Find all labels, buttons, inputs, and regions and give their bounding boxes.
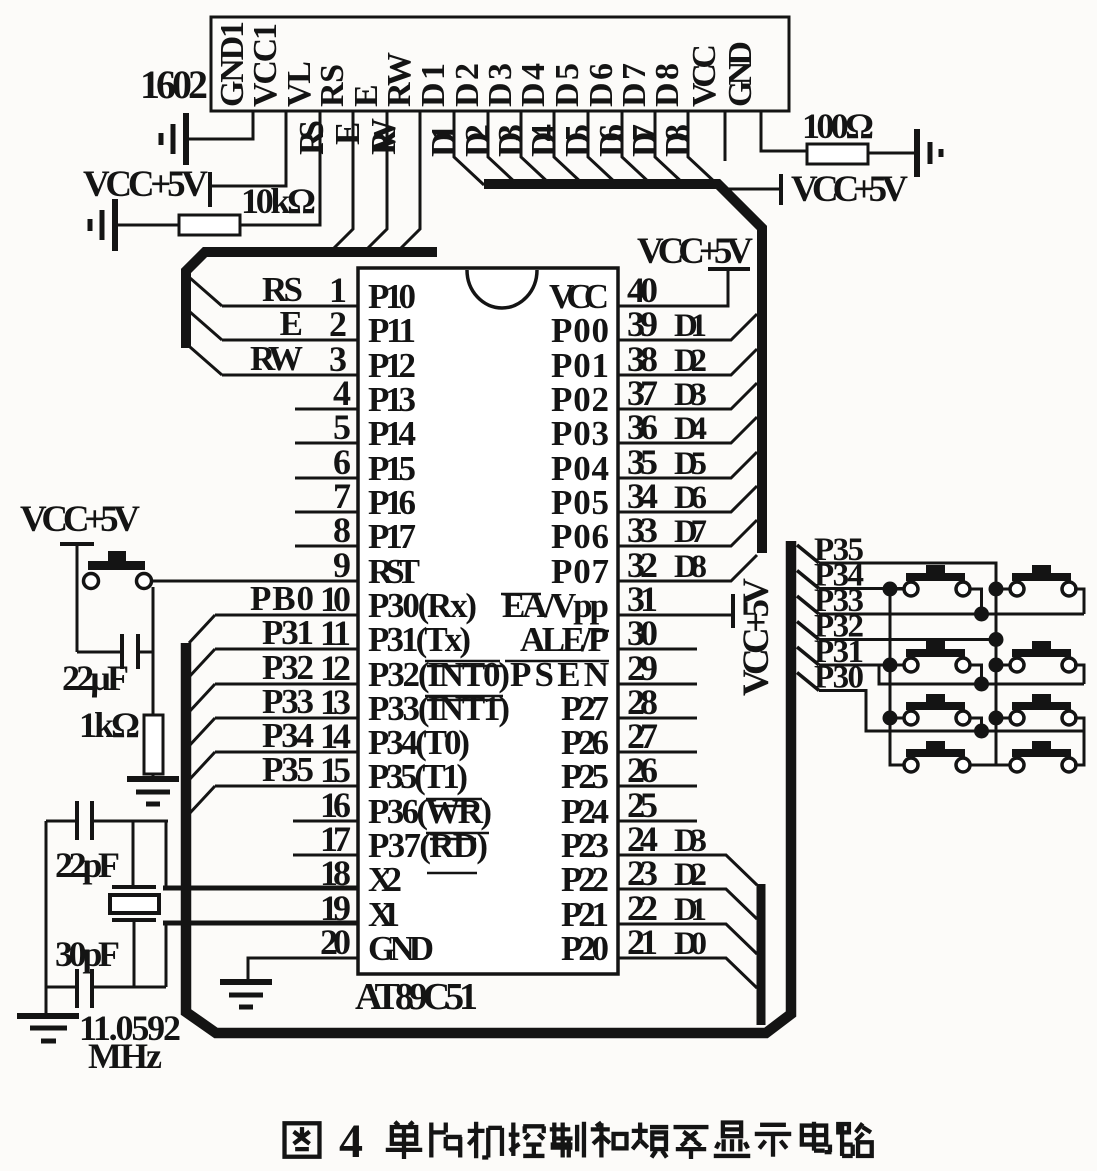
pin 2 P11 wire	[222, 339, 358, 342]
wire row3 right contact drop	[970, 718, 982, 731]
pin 11 P31(Tx) wire	[215, 648, 358, 651]
wire keypad stub P34	[797, 571, 819, 589]
wire LCD D7 to data bus	[655, 111, 685, 185]
svg-text:VCC+5V: VCC+5V	[20, 499, 140, 540]
pin 4 P13 wire	[295, 408, 358, 411]
key button S8 (row 4 right)	[1010, 741, 1076, 772]
key button S5 (row 3 left)	[904, 694, 970, 725]
svg-text:D8: D8	[658, 124, 697, 157]
svg-text:P35(T1): P35(T1)	[368, 757, 468, 796]
wire keypad stub P35	[797, 545, 819, 563]
wire row1 right button corner	[1074, 589, 1084, 614]
junction row3 mid	[989, 711, 1004, 726]
overline INT0	[427, 665, 503, 668]
bus: LCD data bus (thick) top right	[484, 184, 762, 553]
underline (INT0)	[425, 695, 503, 698]
wire keypad stub P33	[797, 596, 819, 614]
resistor R 100Ω	[807, 144, 868, 164]
pin 20 GND wire	[248, 957, 358, 960]
wire P34 row	[819, 587, 903, 590]
svg-text:VCC: VCC	[686, 44, 723, 107]
pin 40 VCC wire	[618, 271, 728, 306]
svg-text:39: 39	[627, 304, 658, 344]
wire row2 right button corner	[1074, 665, 1084, 684]
svg-text:23: 23	[627, 853, 658, 893]
wire GND pin20 to ground	[248, 958, 358, 982]
pin 22 P21 wire	[618, 924, 757, 954]
pin 31 EA/Vpp wire	[618, 614, 731, 617]
svg-text:1kΩ: 1kΩ	[79, 705, 140, 745]
svg-text:D6: D6	[583, 63, 620, 107]
svg-text:15: 15	[320, 750, 351, 790]
wire resistor to ground	[868, 152, 916, 155]
pin 27 P26 wire	[618, 751, 697, 754]
svg-text:26: 26	[627, 750, 658, 790]
svg-text:P11: P11	[368, 311, 416, 350]
push button SW reset	[84, 551, 152, 589]
key button S4 (row 2 right)	[1010, 641, 1076, 672]
svg-text:11: 11	[320, 613, 351, 653]
pin 9 RST wire	[153, 580, 358, 583]
overline INT1	[427, 699, 503, 702]
svg-text:36: 36	[627, 407, 658, 447]
capacitor C 22pF	[77, 801, 92, 840]
pin 19 X1 wire	[163, 923, 358, 926]
pin 17 P37(RD) wire	[293, 854, 358, 857]
pin 6 P15 wire	[295, 477, 358, 480]
pin 21 P20 wire	[618, 958, 757, 988]
svg-text:GND: GND	[722, 41, 759, 107]
pin 32 P07 wire	[618, 555, 757, 581]
wire X1 net to 30pF	[92, 922, 166, 987]
svg-text:D3: D3	[482, 63, 519, 107]
wire button down	[152, 587, 155, 715]
svg-text:VCC+5V: VCC+5V	[637, 231, 753, 272]
wire top cap rail	[46, 820, 77, 823]
svg-text:P35: P35	[262, 750, 314, 789]
wire row3 mid link	[996, 717, 1010, 720]
wire LCD D3 to data bus	[521, 111, 551, 185]
wire 22pF to X2 net	[92, 821, 168, 886]
wire row2 right contact drop	[970, 665, 982, 684]
pin 25 P24 wire	[618, 820, 697, 823]
ground (reset RC)	[127, 779, 179, 804]
svg-text:D8: D8	[674, 549, 707, 585]
pin 13 P33(INT1) wire	[215, 717, 358, 720]
wire LCD D5 to data bus	[588, 111, 618, 185]
junction P32 on column	[989, 632, 1004, 647]
pin 36 P03 wire	[618, 417, 757, 443]
wire X1 (pin19)	[163, 921, 358, 924]
wire pin12 diagonal to left bus	[189, 684, 215, 712]
bus: control bus top-left thick bar	[186, 252, 437, 348]
caption 图4 MCU control & frequency display circuit	[285, 1123, 320, 1156]
svg-text:D7: D7	[674, 514, 707, 550]
svg-text:D1: D1	[674, 892, 707, 928]
svg-text:D6: D6	[674, 480, 707, 516]
ground (LCD GND1)	[161, 113, 186, 165]
wire LCD VL to resistor	[240, 111, 320, 225]
wire LCD D2 to data bus	[488, 111, 518, 185]
underline (Tx)	[425, 660, 500, 663]
underline (WR)	[426, 832, 489, 835]
wire keypad left contact column	[890, 589, 904, 765]
wire LCD D4 to data bus	[554, 111, 584, 185]
svg-text:D1: D1	[415, 63, 452, 107]
svg-text:GND1: GND1	[214, 21, 251, 107]
svg-text:P03: P03	[551, 414, 609, 453]
svg-text:RS: RS	[292, 120, 331, 155]
svg-text:D2: D2	[449, 63, 486, 107]
svg-text:P25: P25	[561, 757, 609, 796]
svg-text:E: E	[348, 84, 385, 107]
svg-text:21: 21	[627, 922, 658, 962]
resistor 10kΩ	[179, 215, 240, 235]
wire pin13 diagonal to left bus	[189, 718, 215, 746]
key button S6 (row 3 right)	[1010, 694, 1076, 725]
overline EA	[501, 593, 541, 596]
wire pin1 diagonal to control bus	[190, 278, 222, 306]
wire rail to ground	[46, 821, 77, 1016]
wire P32 row	[819, 638, 996, 641]
underline (T1)	[426, 798, 482, 801]
pin 26 P25 wire	[618, 785, 697, 788]
svg-text:4: 4	[339, 1115, 363, 1168]
op: MCU U1 AT89C51 body	[358, 268, 618, 974]
svg-text:22pF: 22pF	[55, 845, 120, 885]
wire LCD D1 to data bus	[454, 111, 484, 185]
svg-text:VCC+5V: VCC+5V	[791, 169, 908, 210]
svg-text:D7: D7	[616, 63, 653, 107]
junction row3 drop	[974, 724, 989, 739]
wire LCD VCC stub	[724, 111, 727, 161]
wire row2 left contact	[890, 664, 904, 667]
svg-text:22µF: 22µF	[62, 658, 129, 698]
junction row1 mid	[989, 582, 1004, 597]
wire row4 right corner	[1074, 731, 1084, 765]
svg-text:VL: VL	[281, 61, 318, 107]
ground (pin20)	[220, 982, 272, 1007]
svg-text:RW: RW	[381, 52, 418, 107]
wire P35 row	[819, 563, 996, 765]
svg-text:P31(Tx): P31(Tx)	[368, 620, 471, 659]
svg-text:8: 8	[333, 510, 351, 550]
svg-text:P22: P22	[561, 860, 609, 899]
chip notch	[467, 270, 537, 308]
pin 34 P05 wire	[618, 486, 757, 512]
svg-text:RW: RW	[250, 339, 303, 378]
pin 3 P12 wire	[222, 374, 358, 377]
svg-text:D1: D1	[674, 308, 707, 344]
LCD module 1602 box	[211, 17, 789, 111]
svg-text:30: 30	[627, 613, 658, 653]
key button S3 (row 2 left)	[904, 641, 970, 672]
pin 8 P17 wire	[295, 545, 358, 548]
svg-text:AT89C51: AT89C51	[355, 976, 478, 1018]
wire pin2 diagonal to control bus	[190, 312, 222, 340]
svg-text:30pF: 30pF	[55, 934, 120, 974]
pin 7 P16 wire	[295, 511, 358, 514]
power VCC+5V (pin31, rotated)	[731, 594, 735, 628]
pin 12 P32(INT0) wire	[215, 683, 358, 686]
junction row2 left	[883, 658, 898, 673]
wire P31 branch to row2 right contacts	[879, 665, 1084, 684]
underline (RD)	[427, 872, 477, 875]
svg-text:ALE/P: ALE/P	[520, 620, 609, 659]
svg-text:RS: RS	[314, 64, 351, 107]
svg-text:D8: D8	[649, 63, 686, 107]
wire LCD D8 to data bus	[688, 111, 718, 185]
power VCC+5V (LCD VCC1)	[208, 172, 212, 207]
pin 16 P36(WR) wire	[293, 820, 358, 823]
junction row2 drop	[974, 677, 989, 692]
svg-text:D0: D0	[674, 926, 707, 962]
capacitor C 22µF	[77, 634, 153, 669]
wire LCD RW to bus	[401, 111, 420, 248]
wire row3 left contact	[890, 717, 904, 720]
svg-text:E: E	[280, 304, 303, 343]
wire pin14 diagonal to left bus	[189, 752, 215, 780]
svg-text:GND: GND	[368, 929, 434, 968]
overline WR	[430, 805, 477, 808]
wire P30 row	[819, 691, 1084, 732]
svg-text:D3: D3	[674, 823, 707, 859]
overline P (ALE/P)	[596, 630, 609, 633]
svg-text:1602: 1602	[140, 62, 208, 107]
resistor R 1kΩ	[144, 715, 163, 774]
wire P31 row	[819, 664, 903, 667]
svg-text:P31: P31	[262, 613, 314, 652]
wire row4 bottom link	[970, 764, 996, 767]
overline RD	[430, 838, 476, 841]
pin 23 P22 wire	[618, 889, 757, 919]
svg-text:X2: X2	[368, 860, 402, 899]
pin 10 P30(Rx) wire	[215, 614, 358, 617]
svg-text:E: E	[328, 122, 367, 145]
svg-text:20: 20	[320, 922, 351, 962]
wire LCD E to bus	[368, 111, 387, 248]
wire row2 mid link	[996, 664, 1010, 667]
svg-text:MHz: MHz	[88, 1036, 162, 1076]
svg-text:P20: P20	[561, 929, 609, 968]
wire keypad stub P31	[797, 647, 819, 665]
svg-text:P06: P06	[551, 517, 609, 556]
svg-text:RW: RW	[364, 118, 403, 155]
wire LCD RS to bus	[334, 111, 353, 248]
ground (crystal rail)	[17, 1016, 79, 1041]
junction row1 left	[883, 582, 898, 597]
svg-text:D5: D5	[674, 446, 707, 482]
wire LCD D6 to data bus	[622, 111, 652, 185]
wire pin15 diagonal to left bus	[189, 786, 215, 814]
junction row2 mid	[989, 658, 1004, 673]
svg-text:D3: D3	[674, 377, 707, 413]
wire LCD GND1 to ground	[186, 111, 253, 139]
wire keypad stub P30	[797, 673, 819, 691]
pin 1 P10 wire	[222, 305, 358, 308]
crystal Y 11.0592MHz	[110, 887, 159, 920]
wire P33 row	[819, 613, 1084, 616]
wire resistor to ground	[152, 774, 155, 779]
svg-text:D4: D4	[515, 63, 552, 107]
wire row4 mid link	[996, 764, 1010, 767]
svg-text:10kΩ: 10kΩ	[241, 181, 316, 221]
bus: P2 data bus short bar	[757, 884, 766, 1025]
wire keypad stub P32	[797, 622, 819, 640]
pin 30 ALE/P wire	[618, 648, 697, 651]
svg-text:33: 33	[627, 510, 658, 550]
wire row1 mid link	[996, 588, 1010, 591]
wire pin11 diagonal to left bus	[189, 649, 215, 677]
junction row1 drop	[974, 607, 989, 622]
svg-text:VCC+5V: VCC+5V	[83, 164, 208, 205]
pin 28 P27 wire	[618, 717, 697, 720]
svg-text:D2: D2	[674, 343, 707, 379]
wire pin10 diagonal to left bus	[189, 615, 215, 643]
pin 39 P00 wire	[618, 314, 757, 340]
wire pin3 diagonal to control bus	[190, 347, 222, 375]
svg-text:P14: P14	[368, 414, 416, 453]
pin 33 P06 wire	[618, 520, 757, 546]
svg-text:D5: D5	[549, 63, 586, 107]
pin 15 P35(T1) wire	[215, 785, 358, 788]
pin 24 P23 wire	[618, 855, 757, 885]
svg-text:100Ω: 100Ω	[802, 106, 874, 146]
junction row3 left	[883, 711, 898, 726]
capacitor C 30pF	[77, 969, 92, 1008]
svg-text:VCC1: VCC1	[247, 23, 284, 107]
pin 37 P02 wire	[618, 383, 757, 409]
ground (100Ω)	[917, 129, 941, 177]
svg-text:P00: P00	[551, 311, 609, 350]
svg-text:D2: D2	[674, 857, 707, 893]
overline PSEN	[505, 660, 609, 663]
wire LCD GND to resistor 100Ω	[761, 111, 807, 151]
pin 14 P34(T0) wire	[215, 751, 358, 754]
power VCC+5V (pin40)	[708, 267, 750, 271]
pin 5 P14 wire	[295, 442, 358, 445]
svg-text:D4: D4	[674, 411, 707, 447]
pin 35 P04 wire	[618, 452, 757, 478]
key button S2 (row 1 right)	[1010, 565, 1076, 596]
power VCC+5V (top right)	[727, 188, 779, 191]
svg-text:P17: P17	[368, 517, 416, 556]
pin 18 X2 wire	[163, 888, 358, 891]
wire row1 right contact drop	[970, 589, 982, 614]
wire X2 (pin18)	[163, 886, 358, 889]
svg-text:5: 5	[333, 407, 351, 447]
wire row1 left contact	[890, 588, 904, 591]
svg-text:VCC+5V: VCC+5V	[736, 578, 777, 696]
wire LCD VCC1 to VCC+5V	[212, 111, 286, 186]
ground (10kΩ)	[90, 199, 115, 251]
key button S1 (row 1 left)	[904, 565, 970, 596]
pin 38 P01 wire	[618, 349, 757, 375]
wire VCC to button	[76, 544, 79, 652]
wire resistor to ground	[115, 224, 179, 227]
svg-text:2: 2	[329, 304, 347, 344]
key button S7 (row 4 left)	[904, 741, 970, 772]
pin 29 PSEN wire	[618, 683, 697, 686]
wire row3 right button corner	[1074, 718, 1084, 731]
bus: left vertical thick bar (P3 port) + bottom run + keypad bar	[186, 541, 791, 1033]
